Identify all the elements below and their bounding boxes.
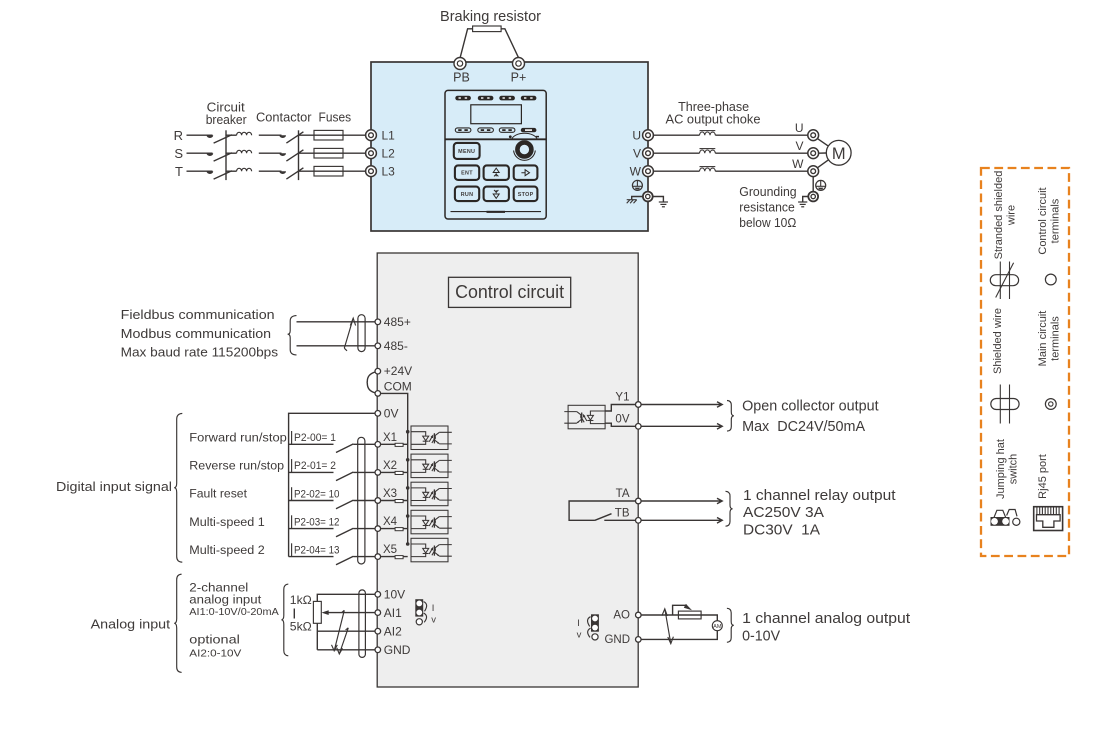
legend symbol main circuit terminal: [1045, 399, 1056, 410]
wire COM to opto rail: [381, 393, 408, 544]
terminal P+: [513, 58, 525, 70]
wire switch to terminal X3: [353, 500, 375, 502]
svg-text:terminals: terminals: [1050, 316, 1062, 361]
keypad key window 3: [499, 128, 515, 132]
circuit breaker pole R: thermal coil: [226, 134, 237, 136]
tick X2 parameter box: [291, 459, 293, 472]
svg-text:Reverse run/stop: Reverse run/stop: [189, 459, 284, 473]
control circuit box: [377, 253, 638, 687]
PE symbol (motor): [816, 180, 826, 190]
svg-text:Forward run/stop: Forward run/stop: [189, 431, 287, 445]
terminal Y1: [636, 402, 642, 408]
svg-text:M: M: [832, 145, 846, 163]
svg-text:X2: X2: [383, 460, 397, 472]
chassis ground (inverter): [627, 200, 637, 204]
svg-text:0-10V: 0-10V: [742, 628, 780, 645]
svg-text:X5: X5: [383, 544, 397, 556]
terminal AO: [636, 612, 642, 618]
earth ground (motor): [798, 202, 807, 207]
terminal L2: [366, 148, 377, 159]
wire arrow TA: [641, 498, 722, 504]
resistor X4: [395, 528, 403, 531]
wire AO to potentiometer: [641, 614, 678, 616]
keypad button DOWN: [484, 187, 509, 202]
wire X1 to resistor: [381, 443, 408, 445]
svg-text:analog input: analog input: [189, 593, 262, 607]
svg-text:485-: 485-: [384, 339, 408, 353]
circuit breaker pole T: blade: [214, 171, 232, 179]
contactor pole T: contact: [279, 171, 286, 174]
svg-text:AI1:0-10V/0-20mA: AI1:0-10V/0-20mA: [189, 607, 279, 618]
wire R input: [187, 134, 213, 136]
optocoupler Y1 output: [564, 405, 605, 429]
brace analog output: [727, 608, 734, 642]
svg-text:5kΩ: 5kΩ: [290, 620, 312, 634]
keypad button RIGHT: [514, 165, 538, 180]
legend panel border: [981, 168, 1069, 556]
legend symbol jumping hat switch: [991, 510, 1020, 526]
svg-text:Rj45 port: Rj45 port: [1037, 454, 1049, 499]
keypad button ENT: [455, 165, 479, 180]
wire U to choke: [653, 134, 699, 136]
svg-text:+24V: +24V: [384, 364, 412, 378]
svg-text:AC250V 3A: AC250V 3A: [743, 504, 824, 521]
keypad button MENU: [454, 143, 480, 159]
terminal AI1: [375, 610, 381, 616]
twisted pair mark AO: [662, 609, 674, 644]
meter AM: [712, 621, 722, 631]
svg-text:Fault reset: Fault reset: [189, 487, 247, 501]
svg-text:U: U: [632, 129, 641, 143]
svg-text:Jumping hat: Jumping hat: [995, 439, 1007, 499]
divider mark: [293, 609, 295, 619]
svg-text:485+: 485+: [384, 315, 411, 329]
svg-text:Braking resistor: Braking resistor: [440, 8, 541, 25]
svg-text:switch: switch: [1008, 454, 1020, 485]
wire choke to motor terminal U: [715, 134, 808, 136]
keypad LED window 3: [499, 96, 515, 101]
wire V to choke: [653, 152, 699, 154]
legend label RJ45 port: [1037, 454, 1049, 499]
wire R to contactor: [259, 134, 282, 136]
svg-text:L2: L2: [382, 147, 396, 161]
circuit breaker pole S: blade: [214, 153, 232, 161]
wire X3 row: [289, 500, 334, 502]
svg-text:GND: GND: [384, 643, 411, 657]
svg-text:PB: PB: [453, 71, 470, 85]
switch X4: [336, 528, 353, 537]
svg-text:ENT: ENT: [461, 171, 473, 177]
wire choke to motor terminal W: [715, 170, 808, 172]
contactor pole S: blade: [286, 150, 303, 161]
legend label shielded wire: [992, 308, 1004, 374]
terminal GND (output): [636, 637, 642, 643]
svg-text:GND: GND: [604, 634, 630, 646]
legend symbol shielded wire: [991, 385, 1019, 424]
contactor pole T: blade: [286, 168, 303, 179]
svg-text:P2-01= 2: P2-01= 2: [294, 460, 336, 472]
wire switch to terminal X2: [353, 471, 375, 473]
svg-text:AC output choke: AC output choke: [666, 112, 761, 126]
terminal TA: [636, 498, 642, 504]
svg-text:AO: AO: [613, 610, 630, 622]
svg-text:Analog input: Analog input: [91, 618, 171, 632]
terminal +24V: [375, 368, 381, 374]
wire braking resistor right lead: [501, 29, 518, 58]
AC output choke U: [700, 131, 716, 136]
AC output choke V: [700, 149, 716, 154]
terminal X2: [375, 470, 381, 476]
circuit breaker pole T: thermal coil: [226, 170, 237, 172]
inverter power unit (blue box): [371, 62, 648, 231]
svg-text:Multi-speed 2: Multi-speed 2: [189, 543, 265, 557]
potentiometer AO: [678, 611, 701, 619]
keypad LED window 2: [478, 96, 494, 101]
wire X2 to resistor: [381, 471, 408, 473]
contactor bar: [298, 130, 300, 180]
tick X5 parameter box: [291, 543, 293, 556]
svg-text:Shielded wire: Shielded wire: [992, 308, 1004, 374]
keypad display: [471, 105, 522, 124]
svg-text:Max DC24V/50mA: Max DC24V/50mA: [742, 418, 865, 435]
keypad bottom strip: [451, 211, 542, 213]
control circuit title box: [449, 277, 571, 307]
wire inverter ground terminal to earth: [652, 197, 663, 202]
keypad button UP: [484, 165, 509, 180]
svg-text:V: V: [633, 147, 641, 161]
jumper hat switch AO (I/V select): [577, 614, 599, 640]
terminal COM: [375, 391, 381, 397]
terminal L3: [366, 166, 377, 177]
wire X2 row: [289, 471, 334, 473]
wire T to contactor: [259, 170, 282, 172]
svg-text:Stranded shielded: Stranded shielded: [993, 171, 1005, 260]
svg-text:P2-02= 10: P2-02= 10: [294, 488, 340, 500]
resistor X2: [395, 471, 403, 474]
wire motor terminal V to motor: [819, 152, 827, 154]
relay contact TA-TB: [569, 501, 635, 520]
ground terminal (motor): [808, 192, 818, 202]
wire arrow Y1: [641, 402, 722, 408]
wire X4 row: [289, 528, 334, 530]
wire potentiometer bottom to AI2/GND: [316, 623, 318, 650]
resistor X3: [395, 500, 403, 503]
wire S to contactor: [259, 152, 282, 154]
keypad LED window 1: [455, 96, 471, 101]
svg-text:TB: TB: [615, 507, 630, 519]
wire R to fuse: [299, 134, 366, 136]
jumper link +24V to COM: [367, 372, 376, 393]
wire arrow TB: [641, 518, 722, 524]
wire S input: [187, 152, 213, 154]
svg-text:L1: L1: [382, 129, 396, 143]
svg-text:Fieldbus communication: Fieldbus communication: [121, 308, 275, 322]
brace open collector output: [727, 401, 734, 432]
svg-text:wire: wire: [1006, 205, 1018, 226]
terminal W (inverter): [643, 166, 654, 177]
svg-text:0V: 0V: [615, 413, 629, 425]
keypad key window 4: [521, 128, 537, 132]
wire switch to terminal X5: [353, 556, 375, 558]
optocoupler X2: [411, 454, 452, 478]
svg-text:W: W: [630, 165, 642, 179]
circuit breaker bar: [225, 130, 227, 180]
junction rail X1: [406, 430, 410, 434]
wire switch to terminal X4: [353, 528, 375, 530]
twisted pair mark AI2: [337, 628, 349, 654]
svg-text:STOP: STOP: [518, 192, 534, 198]
earth ground (inverter): [659, 202, 668, 207]
svg-text:RUN: RUN: [461, 192, 474, 198]
svg-text:1 channel analog output: 1 channel analog output: [742, 610, 911, 627]
svg-text:P2-04= 13: P2-04= 13: [294, 544, 340, 556]
wire T to fuse: [299, 170, 366, 172]
contactor pole R: contact: [279, 135, 286, 138]
wire motor terminal W to motor: [817, 160, 828, 168]
switch X3: [336, 500, 353, 509]
svg-text:Multi-speed 1: Multi-speed 1: [189, 515, 265, 529]
legend symbol stranded shielded wire: [990, 262, 1018, 300]
junction rail X5: [406, 542, 410, 546]
braking resistor body: [473, 26, 502, 32]
svg-text:0V: 0V: [384, 407, 399, 421]
wire arrow 0V: [641, 424, 722, 430]
svg-text:S: S: [174, 146, 183, 161]
terminal V (inverter): [643, 148, 654, 159]
shield capsule digital inputs: [358, 437, 365, 564]
switch X2: [336, 472, 353, 481]
wire motor terminal U to motor: [817, 139, 828, 147]
svg-text:Contactor: Contactor: [256, 110, 312, 124]
circuit breaker pole S: thermal coil: [226, 152, 237, 154]
svg-text:Max baud rate 115200bps: Max baud rate 115200bps: [121, 346, 279, 360]
fuse T: [314, 166, 343, 176]
brace relay output: [726, 491, 733, 526]
circuit breaker pole R: contact: [207, 135, 214, 138]
svg-text:X1: X1: [383, 432, 397, 444]
wire 10V to potentiometer: [317, 594, 375, 601]
svg-text:AI2: AI2: [384, 625, 402, 639]
contactor pole S: contact: [279, 153, 286, 156]
svg-text:Modbus communication: Modbus communication: [121, 327, 272, 341]
svg-text:X4: X4: [383, 516, 398, 528]
wire AI2: [317, 630, 375, 632]
wire opto to Y1: [605, 405, 635, 412]
shield capsule analog: [359, 590, 366, 658]
wire 0V to switch ladder: [289, 413, 375, 556]
switch X1: [336, 444, 353, 453]
keypad key window 2: [478, 128, 494, 132]
wire opto to 0V (output): [605, 423, 635, 426]
svg-text:MENU: MENU: [458, 149, 475, 155]
svg-text:COM: COM: [384, 379, 412, 393]
terminal X1: [375, 442, 381, 448]
legend label main circuit terminals: [1037, 311, 1062, 367]
terminal U (motor): [808, 130, 819, 141]
wire switch to terminal X1: [353, 443, 375, 445]
terminal X3: [375, 498, 381, 504]
svg-text:AM: AM: [713, 624, 722, 630]
brace analog group (outer): [174, 574, 181, 672]
legend symbol control circuit terminal: [1045, 274, 1056, 285]
terminal X4: [375, 526, 381, 532]
junction rail X2: [406, 458, 410, 462]
svg-text:I: I: [577, 618, 580, 629]
resistor X5: [395, 556, 403, 559]
tick X4 parameter box: [291, 515, 293, 528]
svg-text:DC30V 1A: DC30V 1A: [743, 521, 820, 538]
svg-text:Control circuit: Control circuit: [455, 282, 564, 302]
keypad divider: [445, 138, 546, 140]
svg-text:breaker: breaker: [206, 113, 247, 127]
svg-text:T: T: [175, 164, 183, 179]
AC output choke W: [700, 167, 716, 172]
svg-text:v: v: [431, 615, 436, 626]
wire X4 to resistor: [381, 528, 408, 530]
terminal 485-: [375, 343, 381, 349]
terminal L1: [366, 130, 377, 141]
svg-text:W: W: [792, 157, 804, 171]
svg-text:1 channel relay output: 1 channel relay output: [743, 487, 896, 504]
svg-text:Grounding: Grounding: [739, 184, 796, 199]
tick X3 parameter box: [291, 487, 293, 500]
svg-text:R: R: [174, 128, 183, 143]
svg-text:1kΩ: 1kΩ: [290, 593, 312, 607]
keypad panel outline: [445, 90, 546, 219]
keypad LED window 4: [521, 96, 537, 101]
svg-text:Main circuit: Main circuit: [1037, 311, 1049, 367]
wire 485+: [297, 321, 375, 323]
wire X1 row: [289, 443, 334, 445]
ground terminal (inverter): [643, 192, 653, 202]
keypad knob top arc: [512, 133, 537, 139]
wire S to fuse: [299, 152, 366, 154]
wire braking resistor left lead: [460, 29, 472, 58]
svg-text:P2-00= 1: P2-00= 1: [294, 432, 336, 444]
svg-text:Fuses: Fuses: [319, 110, 352, 124]
wire 485-: [297, 345, 375, 347]
circuit breaker pole S: contact: [207, 153, 214, 156]
wiper arrow AI1: [329, 612, 375, 614]
wire inverter ground terminal to chassis: [632, 197, 643, 200]
svg-text:terminals: terminals: [1050, 198, 1062, 243]
svg-text:Open collector output: Open collector output: [742, 398, 879, 415]
wiper arrow AO: [673, 605, 687, 615]
potentiometer AI: [313, 601, 321, 623]
svg-text:resistance: resistance: [739, 199, 795, 214]
wire potentiometer to meter: [701, 615, 717, 621]
brace 2-channel group: [281, 584, 288, 656]
svg-text:10V: 10V: [384, 588, 405, 602]
svg-text:Digital input signal: Digital input signal: [56, 480, 172, 494]
keypad button STOP: [514, 187, 538, 202]
wire W terminal to motor ground terminal: [812, 177, 814, 192]
PE symbol (inverter): [632, 180, 642, 190]
svg-text:V: V: [795, 139, 803, 153]
fuse R: [314, 130, 343, 140]
legend label control circuit terminals: [1037, 187, 1062, 254]
keypad knob: [517, 143, 531, 157]
jumper hat switch AI1 (I/V select): [415, 599, 436, 625]
wire X3 to resistor: [381, 500, 408, 502]
svg-text:U: U: [795, 121, 804, 135]
motor M: [826, 140, 851, 165]
wire motor ground terminal to earth: [803, 197, 809, 202]
svg-text:P+: P+: [511, 71, 527, 85]
svg-text:optional: optional: [189, 633, 240, 647]
terminal PB: [454, 58, 466, 70]
wire X5 to resistor: [381, 556, 408, 558]
terminal X5: [375, 554, 381, 560]
fuse S: [314, 148, 343, 158]
legend label jumping hat switch: [995, 439, 1020, 499]
svg-text:v: v: [577, 630, 582, 641]
brace 485 group: [288, 316, 297, 355]
terminal U (inverter): [643, 130, 654, 141]
wire X5 row: [289, 556, 334, 558]
wire GND (analog): [317, 649, 375, 651]
circuit breaker pole R: blade: [214, 135, 232, 143]
shield capsule 485: [358, 315, 365, 352]
optocoupler X4: [411, 510, 452, 534]
terminal 10V: [375, 592, 381, 598]
svg-text:TA: TA: [616, 488, 630, 500]
svg-text:Y1: Y1: [615, 391, 629, 403]
wire W to choke: [653, 170, 699, 172]
optocoupler X1: [411, 426, 452, 450]
svg-text:L3: L3: [382, 165, 396, 179]
circuit breaker pole T: contact: [207, 171, 214, 174]
svg-text:below 10Ω: below 10Ω: [739, 215, 796, 230]
legend symbol RJ45 port: [1034, 507, 1063, 531]
svg-text:X3: X3: [383, 488, 397, 500]
switch X5: [336, 556, 353, 565]
legend label stranded shielded wire: [993, 171, 1018, 260]
tick X1 parameter box: [291, 431, 293, 444]
wire meter to GND: [641, 631, 717, 640]
twisted pair mark AI1: [332, 610, 345, 651]
optocoupler X5: [411, 538, 452, 562]
resistor X1: [395, 443, 403, 446]
junction rail X3: [406, 486, 410, 490]
svg-text:AI2:0-10V: AI2:0-10V: [189, 648, 241, 660]
terminal 0V (output): [636, 424, 642, 430]
terminal V (motor): [808, 148, 819, 159]
brace digital input group: [174, 413, 182, 562]
keypad key window 1: [455, 128, 471, 132]
svg-text:P2-03= 12: P2-03= 12: [294, 516, 340, 528]
keypad button RUN: [455, 187, 479, 202]
contactor pole R: blade: [286, 132, 303, 143]
wire T input: [187, 170, 213, 172]
svg-text:I: I: [432, 603, 435, 614]
terminal 0V: [375, 411, 381, 417]
terminal 485+: [375, 319, 381, 325]
svg-text:AI1: AI1: [384, 606, 402, 620]
optocoupler X3: [411, 482, 452, 506]
twisted pair mark 485: [344, 318, 355, 351]
terminal AI2: [375, 628, 381, 634]
wire choke to motor terminal V: [715, 152, 808, 154]
terminal GND: [375, 647, 381, 653]
svg-text:Control circuit: Control circuit: [1037, 187, 1049, 254]
terminal W (motor): [808, 166, 819, 177]
junction rail X4: [406, 514, 410, 518]
terminal TB: [636, 518, 642, 524]
